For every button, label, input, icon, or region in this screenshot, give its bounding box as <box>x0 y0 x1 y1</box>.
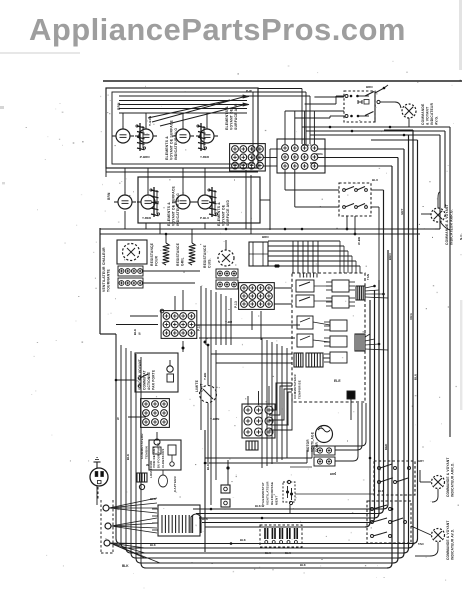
svg-text:RED: RED <box>310 161 317 165</box>
svg-text:BLK-W: BLK-W <box>255 504 265 508</box>
svg-text:ORG: ORG <box>409 313 413 320</box>
svg-text:P.15: P.15 <box>197 324 201 331</box>
svg-text:RESISTANCE: RESISTANCE <box>176 242 180 266</box>
svg-text:BLK: BLK <box>122 564 129 568</box>
svg-text:THERMOSTAT: THERMOSTAT <box>261 482 265 505</box>
svg-text:CUIS.: CUIS. <box>208 258 212 268</box>
svg-text:BLK: BLK <box>240 538 246 542</box>
svg-text:COMMUTAT: COMMUTAT <box>143 370 147 390</box>
svg-text:BLK: BLK <box>265 551 271 555</box>
svg-text:VOYANT DE SURFACE: VOYANT DE SURFACE <box>170 119 174 160</box>
svg-text:BLK: BLK <box>285 551 291 555</box>
svg-text:ELE: ELE <box>334 379 341 383</box>
svg-text:P-BLU: P-BLU <box>200 216 209 220</box>
svg-text:BLK: BLK <box>150 543 156 547</box>
svg-text:AV.G.: AV.G. <box>435 116 439 125</box>
svg-text:BRN: BRN <box>366 85 373 89</box>
svg-text:TAN: TAN <box>366 274 370 280</box>
svg-text:REFROIDISSE: REFROIDISSE <box>270 482 274 505</box>
svg-text:PAR PORTE: PAR PORTE <box>152 370 156 390</box>
svg-text:INDICATEUR: INDICATEUR <box>430 102 434 125</box>
svg-text:GRIL: GRIL <box>181 257 185 266</box>
svg-text:TEMPORISE: TEMPORISE <box>298 380 302 399</box>
svg-text:TAN: TAN <box>418 542 424 546</box>
svg-text:ELEMENTS &: ELEMENTS & <box>165 136 169 160</box>
svg-text:COMMANDE & VOYANT: COMMANDE & VOYANT <box>446 520 450 560</box>
svg-text:Y-BRN: Y-BRN <box>210 417 219 421</box>
svg-text:BLU: BLU <box>414 374 418 380</box>
svg-text:BRN: BRN <box>262 235 269 239</box>
svg-text:GRY: GRY <box>418 459 424 463</box>
svg-text:INDICATEUR AV.G: INDICATEUR AV.G <box>174 128 178 160</box>
svg-text:BRN: BRN <box>388 253 392 260</box>
svg-text:LIMITE: LIMITE <box>195 379 199 392</box>
svg-text:ELEMENTS &: ELEMENTS & <box>167 202 171 226</box>
svg-text:BLK: BLK <box>150 497 157 501</box>
svg-text:COMMANDE: COMMANDE <box>421 103 425 125</box>
svg-text:P-BRN: P-BRN <box>140 155 150 159</box>
svg-text:INDICATEUR ARR.D.: INDICATEUR ARR.D. <box>451 462 455 497</box>
svg-text:P.13: P.13 <box>234 301 238 308</box>
svg-text:BRN: BRN <box>330 472 336 476</box>
svg-text:BLU: BLU <box>372 178 378 182</box>
svg-text:N.C.: N.C. <box>459 233 463 240</box>
svg-text:DU FOUR PARTS: DU FOUR PARTS <box>157 443 161 468</box>
svg-text:CAPTEUR: CAPTEUR <box>173 475 177 492</box>
svg-text:RESISTANCE: RESISTANCE <box>150 242 154 266</box>
svg-text:VENTILATEUR CHALEUR: VENTILATEUR CHALEUR <box>102 247 106 292</box>
svg-text:Y-RED: Y-RED <box>200 155 210 159</box>
svg-text:INDICATEUR AR.G: INDICATEUR AR.G <box>176 193 180 226</box>
svg-text:BLK: BLK <box>300 563 306 567</box>
svg-text:FOUR: FOUR <box>155 255 159 266</box>
svg-text:Y-BRN: Y-BRN <box>148 116 152 126</box>
svg-text:ELEMENTS &: ELEMENTS & <box>217 202 221 226</box>
svg-text:BRN: BRN <box>117 102 121 110</box>
svg-text:VOYANT DE: VOYANT DE <box>222 204 226 226</box>
svg-text:& VOYANT: & VOYANT <box>426 107 430 125</box>
svg-text:TOURNANTE: TOURNANTE <box>107 268 111 292</box>
svg-text:BLK: BLK <box>378 489 384 493</box>
svg-text:INDICATEUR ARR.G.: INDICATEUR ARR.G. <box>450 209 454 245</box>
svg-text:Y-BR: Y-BR <box>203 373 207 380</box>
svg-text:VENTILATEUR: VENTILATEUR <box>266 481 270 505</box>
svg-text:RESISTANCE: RESISTANCE <box>203 244 207 268</box>
svg-text:W: W <box>116 417 120 420</box>
svg-text:SURFACE ARR: SURFACE ARR <box>234 103 238 130</box>
svg-text:BLK: BLK <box>133 329 137 335</box>
svg-text:Y-RED: Y-RED <box>142 216 152 220</box>
svg-text:W: W <box>138 332 142 335</box>
svg-text:ORG: ORG <box>316 152 324 156</box>
svg-text:VOIR DETAILS: VOIR DETAILS <box>152 446 156 468</box>
svg-text:BLK: BLK <box>206 464 210 470</box>
svg-text:VOYANT DE: VOYANT DE <box>230 108 234 130</box>
svg-text:BRN: BRN <box>107 192 111 200</box>
svg-text:P-W: P-W <box>246 89 252 93</box>
svg-text:COMMUTATEUR: COMMUTATEUR <box>293 374 297 399</box>
svg-text:GRY: GRY <box>400 208 404 215</box>
svg-text:COMMANDE & VOYANT: COMMANDE & VOYANT <box>446 457 450 497</box>
svg-text:CI-DESSOUS: CI-DESSOUS <box>161 449 165 468</box>
svg-text:ELEMENTS &: ELEMENTS & <box>225 106 229 130</box>
svg-text:INDICATEUR AV.D.: INDICATEUR AV.D. <box>451 529 455 560</box>
svg-text:MENT: MENT <box>275 495 279 505</box>
svg-text:VOYANT DE SURFACE: VOYANT DE SURFACE <box>172 185 176 226</box>
svg-text:TEMOIN: TEMOIN <box>145 446 149 459</box>
svg-text:BLK: BLK <box>126 454 130 460</box>
svg-text:RED: RED <box>384 443 388 450</box>
svg-text:SURFACE AVD: SURFACE AVD <box>226 200 230 226</box>
svg-text:COMMANDE & VOYANT: COMMANDE & VOYANT <box>445 204 449 245</box>
svg-text:W-BR: W-BR <box>357 237 361 245</box>
